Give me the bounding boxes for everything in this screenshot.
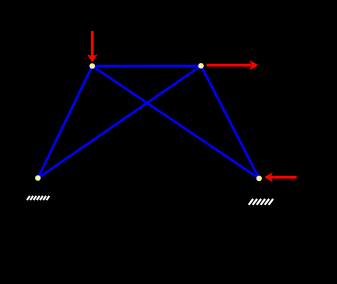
- member AD (long crossing diagonal): [92, 66, 259, 178]
- node C (bottom-left joint): [35, 175, 41, 181]
- force arrow F1 (downward onto node A): [88, 31, 97, 62]
- force arrow F3 (leftward onto node D): [265, 173, 297, 181]
- support hatching under node D: [249, 199, 273, 205]
- member AC (left diagonal): [38, 66, 92, 178]
- node B (top-right joint): [198, 63, 204, 69]
- node A (top-left joint): [89, 63, 95, 69]
- node D (bottom-right joint): [256, 176, 262, 182]
- member BC (long crossing diagonal): [38, 66, 201, 178]
- force arrow F2 (rightward from node B): [207, 61, 258, 69]
- support hatching under node C: [27, 196, 49, 200]
- member AB (top chord): [92, 65, 201, 68]
- member BD (right diagonal): [201, 66, 259, 179]
